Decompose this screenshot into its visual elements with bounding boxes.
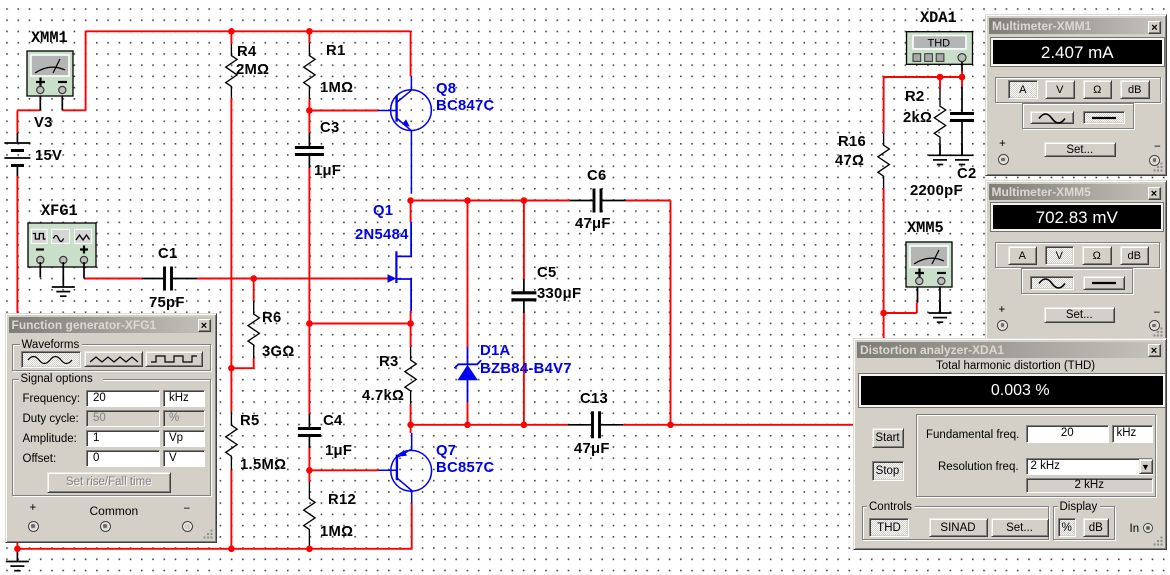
svg-text:15V: 15V xyxy=(35,148,62,164)
wire bottom rail xyxy=(17,548,412,550)
battery V3 xyxy=(4,133,30,176)
capacitor C6 xyxy=(570,200,593,202)
wire XFG1 common pin xyxy=(62,262,64,276)
resistor R4 xyxy=(226,44,237,98)
svg-text:1μF: 1μF xyxy=(325,443,352,459)
svg-text:2kΩ: 2kΩ xyxy=(903,110,932,126)
wire emitter rail xyxy=(411,424,568,426)
wire XMM1+ pin xyxy=(39,96,41,110)
wire Q8 base xyxy=(309,110,378,112)
wire Q7 base xyxy=(309,469,379,471)
wire right branch down xyxy=(670,201,672,425)
junction xyxy=(306,320,313,327)
svg-text:75pF: 75pF xyxy=(149,295,185,311)
junction xyxy=(407,320,414,327)
instrument panel: Multimeter XMM5 xyxy=(985,180,1167,342)
transistor Q1 xyxy=(388,222,411,311)
wire C3 top xyxy=(308,111,310,134)
junction xyxy=(407,197,414,204)
ground GND C2 xyxy=(961,144,963,155)
wire XDA1 pin xyxy=(961,62,963,71)
wire D1A top xyxy=(467,201,469,348)
wire C3 bottom xyxy=(308,168,310,324)
junction xyxy=(228,365,235,372)
ground GND XMM5 xyxy=(939,302,941,313)
svg-text:C13: C13 xyxy=(580,391,608,407)
svg-text:47μF: 47μF xyxy=(574,441,610,457)
wire up to top rail xyxy=(85,31,87,110)
svg-text:BZB84-B4V7: BZB84-B4V7 xyxy=(480,361,572,377)
wire XDA1 terminal xyxy=(961,71,963,77)
transistor Q8 xyxy=(378,76,431,194)
wire to Q8 collector xyxy=(410,31,412,76)
resistor R3 xyxy=(405,347,416,404)
junction xyxy=(464,197,471,204)
instrument icon XMM1 xyxy=(27,51,73,96)
capacitor C2 xyxy=(961,87,963,113)
svg-text:R16: R16 xyxy=(838,134,866,150)
wire XDA1 input net xyxy=(884,76,962,78)
junction xyxy=(14,546,21,553)
wire R3 bottom xyxy=(410,404,412,425)
svg-text:R4: R4 xyxy=(237,44,257,60)
wire battery- down xyxy=(16,176,18,549)
svg-text:1.5MΩ: 1.5MΩ xyxy=(240,457,286,473)
wire XMM1- pin xyxy=(61,96,63,110)
junction xyxy=(521,422,528,429)
svg-text:C1: C1 xyxy=(158,246,178,262)
resistor R16 xyxy=(878,133,889,188)
resistor R5 xyxy=(226,412,237,471)
wire Q7 emitter xyxy=(410,425,412,433)
wire R2 top xyxy=(939,77,941,88)
ground GND bottom xyxy=(16,551,18,562)
wire C6 right xyxy=(626,200,671,202)
junction xyxy=(521,197,528,204)
wire XFG1+ pin xyxy=(83,262,85,279)
svg-text:2N5484: 2N5484 xyxy=(355,227,409,243)
wire Q1 source rail xyxy=(309,323,410,325)
instrument icon XDA1 xyxy=(907,32,973,65)
junction xyxy=(464,422,471,429)
svg-text:47Ω: 47Ω xyxy=(835,153,864,169)
wire C4 bottom xyxy=(308,448,310,470)
svg-text:Q7: Q7 xyxy=(436,443,456,459)
svg-text:1MΩ: 1MΩ xyxy=(320,80,353,96)
svg-text:C5: C5 xyxy=(537,265,557,281)
svg-text:1μF: 1μF xyxy=(314,163,341,179)
svg-text:4.7kΩ: 4.7kΩ xyxy=(362,388,404,404)
junction xyxy=(937,74,944,81)
wire R6 top xyxy=(253,279,255,302)
resistor R12 xyxy=(304,482,315,546)
instrument icon XFG1 xyxy=(28,223,96,267)
junction xyxy=(228,546,235,553)
wire R1 top xyxy=(308,31,310,43)
wire Q1 drain xyxy=(410,201,412,223)
junction xyxy=(407,422,414,429)
wire output rail xyxy=(623,424,855,426)
svg-text:XMM1: XMM1 xyxy=(31,29,68,47)
junction xyxy=(306,467,313,474)
svg-text:R6: R6 xyxy=(262,310,282,326)
resistor R2 xyxy=(934,88,945,155)
instrument icon XMM5 xyxy=(906,242,952,287)
capacitor C4 xyxy=(308,414,310,427)
junction xyxy=(667,422,674,429)
svg-text:R3: R3 xyxy=(379,354,399,370)
svg-text:D1A: D1A xyxy=(480,343,511,359)
svg-text:330μF: 330μF xyxy=(537,286,581,302)
wire R3 top xyxy=(410,324,412,348)
wire battery+ up xyxy=(16,110,18,133)
wire to R5 top xyxy=(230,368,232,411)
zener diode D1A xyxy=(454,347,481,402)
wire C4 top xyxy=(308,324,310,415)
instrument panel: Multimeter XMM1 xyxy=(985,14,1167,176)
wire XMM5+ up xyxy=(916,303,918,314)
svg-text:R12: R12 xyxy=(328,492,356,508)
wire R6 bottom xyxy=(253,358,255,368)
svg-text:Q1: Q1 xyxy=(373,203,393,219)
svg-text:C6: C6 xyxy=(587,168,607,184)
svg-text:BC847C: BC847C xyxy=(436,98,495,114)
capacitor C5 xyxy=(523,279,525,292)
wire XFG1+ to C1 xyxy=(84,278,142,280)
wire R5 bottom xyxy=(230,470,232,549)
svg-text:3GΩ: 3GΩ xyxy=(262,344,295,360)
junction xyxy=(306,28,313,35)
wire R12 bottom xyxy=(308,546,310,549)
wire R4 top xyxy=(230,31,232,44)
wire D1A bottom xyxy=(467,402,469,425)
wire top rail xyxy=(86,30,411,32)
svg-text:XMM5: XMM5 xyxy=(907,219,944,237)
svg-text:R5: R5 xyxy=(240,413,260,429)
wire R1 bottom xyxy=(308,99,310,111)
junction xyxy=(306,546,313,553)
wire to XMM5+ xyxy=(884,312,917,314)
svg-text:R1: R1 xyxy=(326,43,346,59)
resistor R1 xyxy=(304,43,315,99)
junction xyxy=(880,310,887,317)
junction xyxy=(959,74,966,81)
svg-text:47μF: 47μF xyxy=(575,216,611,232)
capacitor C13 xyxy=(568,424,591,426)
wire C5 bottom xyxy=(523,313,525,425)
wire mid rail xyxy=(411,200,570,202)
svg-text:R2: R2 xyxy=(905,89,925,105)
wire Q7 collector xyxy=(411,503,413,549)
wire R12 top xyxy=(308,470,310,482)
wire XMM5- pin xyxy=(939,287,941,314)
wire C2 top xyxy=(961,77,963,87)
wire R4 bottom to R5 xyxy=(230,98,232,368)
wire Q1 source xyxy=(410,311,412,324)
svg-text:C4: C4 xyxy=(323,413,343,429)
ground GND R2 xyxy=(939,144,941,155)
svg-text:C3: C3 xyxy=(320,120,340,136)
wire C1 to Q1 gate xyxy=(197,278,388,280)
wire R6 to R5 node xyxy=(231,367,253,369)
wire R16 bottom xyxy=(883,188,885,340)
svg-text:1MΩ: 1MΩ xyxy=(320,524,353,540)
junction xyxy=(228,28,235,35)
wire R16 top xyxy=(883,77,885,133)
ground GND XFG1 xyxy=(62,276,64,287)
svg-text:V3: V3 xyxy=(34,115,53,131)
wire XMM1- right xyxy=(62,109,85,111)
wire XFG1- pin xyxy=(39,262,41,278)
svg-text:2MΩ: 2MΩ xyxy=(236,62,269,78)
capacitor C1 xyxy=(142,278,163,280)
resistor R6 xyxy=(248,301,259,358)
wire C5 top xyxy=(523,201,525,280)
transistor Q7 xyxy=(379,433,432,503)
svg-text:Q8: Q8 xyxy=(436,81,456,97)
wire XMM5+ pin xyxy=(917,287,919,303)
wire battery+ to XMM1+ xyxy=(17,109,40,111)
junction xyxy=(306,107,313,114)
svg-text:C2: C2 xyxy=(957,166,977,182)
svg-text:2200pF: 2200pF xyxy=(910,183,963,199)
instrument panel: Distortion analyzer XDA1 xyxy=(853,338,1167,550)
instrument panel: Function generator XFG1 xyxy=(5,313,217,543)
svg-text:THD: THD xyxy=(928,37,951,49)
svg-text:XDA1: XDA1 xyxy=(920,9,957,27)
svg-text:BC857C: BC857C xyxy=(436,460,495,476)
svg-text:XFG1: XFG1 xyxy=(41,202,78,220)
capacitor C3 xyxy=(308,133,310,146)
junction xyxy=(250,275,257,282)
